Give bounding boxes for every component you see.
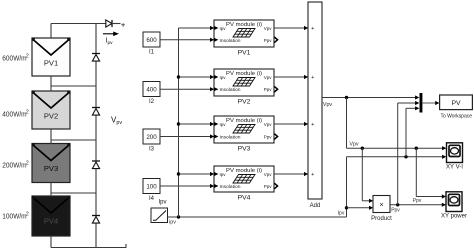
- constant block I1 value 600: [143, 32, 160, 56]
- wire Vpv output PV1 to Add: [274, 26, 308, 30]
- svg-text:Product: Product: [371, 216, 392, 222]
- xy graph scope XY V-I: [446, 143, 463, 171]
- constant block I2 value 400: [143, 82, 160, 106]
- svg-text:Vpv: Vpv: [349, 142, 359, 148]
- wire Vpv output PV2 to Add: [274, 75, 308, 79]
- blocking diode D5 with output wire: [106, 20, 121, 27]
- wire top horizontal to blocking diode: [51, 23, 106, 25]
- solar panel PV1: [32, 38, 70, 76]
- svg-text:Add: Add: [310, 203, 321, 209]
- svg-text:Insolation: Insolation: [220, 184, 242, 189]
- wire Ppv from Product: [390, 204, 443, 206]
- wire Ipv tap to PV1 module: [179, 27, 212, 29]
- wire Ipv horizontal to XY V-I in2: [347, 156, 444, 158]
- mux block: [420, 93, 423, 113]
- svg-text:Vpv: Vpv: [264, 75, 273, 80]
- svg-text:Ipv: Ipv: [220, 122, 227, 127]
- subsystem block PV module PV3: [214, 116, 278, 152]
- solar panel PV2: [32, 91, 70, 129]
- svg-text:Vpv: Vpv: [111, 116, 122, 127]
- wire series string top segment: [50, 24, 52, 39]
- svg-text:PV: PV: [451, 100, 461, 107]
- xy graph scope XY power: [441, 192, 467, 220]
- wire Vpv down to Product in1: [361, 148, 363, 201]
- svg-text:PV module (i): PV module (i): [226, 118, 262, 124]
- svg-text:XY V-I: XY V-I: [446, 165, 463, 171]
- junction Vpv to Product: [361, 147, 364, 150]
- wire insolation from I2 to PV module: [160, 87, 214, 91]
- wire Ipv riser to Mux in3: [405, 108, 407, 157]
- constant block I3 value 200: [143, 129, 160, 153]
- svg-text:Vpv: Vpv: [264, 122, 273, 127]
- svg-text:ipv: ipv: [169, 220, 176, 226]
- svg-text:+: +: [311, 172, 314, 178]
- junction Ipv bus tap PV4: [177, 172, 180, 175]
- junction Ipv bus tap PV3: [177, 122, 180, 125]
- wire insolation from I3 to PV module: [160, 134, 214, 138]
- wire Vpv output PV4 to Add: [274, 172, 308, 176]
- junction ramp output: [177, 215, 180, 218]
- wire insolation from I4 to PV module: [160, 184, 214, 188]
- svg-text:Vpv: Vpv: [264, 172, 273, 177]
- svg-text:2: 2: [26, 53, 29, 59]
- wire PV3-PV4 link: [50, 182, 52, 197]
- svg-text:PV module (i): PV module (i): [226, 71, 262, 77]
- junction Ipv bus tap PV2: [177, 75, 180, 78]
- svg-text:Ppv: Ppv: [264, 135, 273, 140]
- junction Ipv to Product: [345, 206, 348, 209]
- svg-text:200: 200: [146, 134, 157, 141]
- junction Vpv drop: [345, 96, 348, 99]
- svg-text:400: 400: [146, 87, 157, 94]
- constant block I4 value 100: [143, 179, 160, 203]
- wire tap node A (PV1-PV2) to bypass line: [51, 85, 96, 87]
- svg-text:100: 100: [146, 184, 157, 191]
- junction Ipv to Mux riser: [404, 155, 407, 158]
- svg-text:Vpv: Vpv: [323, 102, 333, 108]
- svg-text:600: 600: [146, 37, 157, 44]
- svg-text:PV module (i): PV module (i): [226, 168, 262, 174]
- subsystem block PV module PV4: [214, 166, 278, 201]
- svg-text:Vpv: Vpv: [264, 26, 273, 31]
- svg-text:Ppv: Ppv: [264, 87, 273, 92]
- svg-text:+: +: [121, 20, 126, 29]
- svg-text:Ipv: Ipv: [338, 210, 345, 216]
- wire Vpv horizontal to XY V-I: [347, 147, 444, 149]
- wire Ipv tap to PV4 module: [179, 173, 212, 175]
- svg-text:×: ×: [379, 200, 383, 209]
- wire PV4 bottom segment: [50, 236, 52, 248]
- ramp source block Ipv: [151, 200, 168, 223]
- wire tap node C (PV3-PV4) to bypass line: [51, 192, 96, 194]
- wire Vpv output PV3 to Add: [274, 122, 308, 126]
- current arrow Ipv: [103, 32, 119, 46]
- wire Ipv vertical bus: [178, 28, 180, 217]
- svg-text:PV3: PV3: [44, 164, 58, 173]
- wire Ipv riser: [346, 157, 348, 217]
- wire Ipv tap to PV2 module: [179, 76, 212, 78]
- svg-text:Ipv: Ipv: [158, 200, 166, 206]
- solar panel PV4: [32, 196, 70, 236]
- wire tap node B (PV2-PV3) to bypass line: [51, 139, 96, 141]
- svg-text:I2: I2: [149, 99, 155, 105]
- svg-text:I1: I1: [149, 50, 155, 56]
- svg-text:+: +: [311, 26, 314, 32]
- svg-text:600W/m: 600W/m: [2, 54, 26, 63]
- svg-text:100W/m: 100W/m: [2, 212, 26, 221]
- svg-text:PV4: PV4: [238, 194, 251, 201]
- bypass diode D1: [92, 54, 100, 62]
- to-workspace block PV: [440, 95, 473, 120]
- wire insolation from I1 to PV module: [160, 38, 214, 42]
- wire Ppv riser to Mux in2: [397, 103, 399, 205]
- svg-text:Ipv: Ipv: [220, 172, 227, 177]
- svg-text:Insolation: Insolation: [220, 135, 242, 140]
- wire Ipv to Product in2: [347, 207, 371, 209]
- svg-text:Insolation: Insolation: [220, 87, 242, 92]
- svg-text:Ppv: Ppv: [264, 38, 273, 43]
- svg-text:PV module (i): PV module (i): [226, 22, 262, 28]
- sum block Add: [308, 2, 322, 209]
- subsystem block PV module PV1: [214, 20, 278, 56]
- svg-text:+: +: [311, 75, 314, 81]
- wire Vpv from Add to Mux: [322, 97, 416, 99]
- svg-text:Ppv: Ppv: [391, 208, 400, 214]
- svg-text:Ipv: Ipv: [220, 26, 227, 31]
- wire Ipv main horizontal run: [168, 216, 347, 218]
- svg-text:PV1: PV1: [44, 59, 58, 68]
- svg-text:400W/m: 400W/m: [2, 110, 26, 119]
- wire bottom negative rail: [51, 247, 126, 249]
- wire Vpv down to XY power in1: [415, 148, 417, 196]
- wire PV2-PV3 link: [50, 129, 52, 145]
- wire Vpv vertical drop: [346, 98, 348, 149]
- svg-text:2: 2: [26, 109, 29, 115]
- svg-text:Ipv: Ipv: [106, 38, 114, 46]
- wire Mux output to PV workspace: [422, 102, 436, 104]
- bypass diode D2: [92, 108, 100, 116]
- svg-text:Ipv: Ipv: [220, 75, 227, 80]
- svg-text:PV1: PV1: [238, 49, 251, 56]
- svg-text:200W/m: 200W/m: [2, 161, 26, 170]
- svg-text:PV3: PV3: [238, 145, 251, 152]
- subsystem block PV module PV2: [214, 69, 278, 105]
- svg-text:PV2: PV2: [238, 98, 251, 105]
- junction Ppv riser: [396, 203, 399, 206]
- svg-text:2: 2: [26, 211, 29, 217]
- junction Vpv to XY power: [415, 147, 418, 150]
- svg-text:Ppv: Ppv: [264, 184, 273, 189]
- svg-text:To Workspace: To Workspace: [441, 114, 473, 120]
- wire Ipv tap to PV3 module: [179, 123, 212, 125]
- bypass diode D3: [92, 161, 100, 169]
- svg-text:+: +: [311, 122, 314, 128]
- svg-text:PV2: PV2: [44, 112, 58, 121]
- wire PV1-PV2 link: [50, 76, 52, 92]
- svg-text:PV4: PV4: [44, 217, 58, 226]
- svg-text:I4: I4: [149, 196, 155, 202]
- solar panel PV3: [32, 143, 70, 182]
- bypass diode D4: [92, 216, 100, 224]
- wire bypass diode bus vertical: [95, 24, 97, 248]
- multiplier block Product: [371, 196, 392, 222]
- svg-text:I3: I3: [149, 147, 155, 153]
- svg-text:Ppv: Ppv: [413, 198, 422, 204]
- svg-text:2: 2: [26, 160, 29, 166]
- svg-text:Insolation: Insolation: [220, 38, 242, 43]
- svg-text:XY power: XY power: [441, 214, 467, 220]
